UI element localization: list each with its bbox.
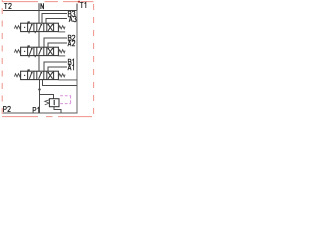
arrows in cells	[29, 24, 32, 31]
valve body	[21, 23, 59, 31]
border corner dot top-right	[78, 1, 80, 3]
wire: riser valve1->valve2	[38, 32, 40, 48]
arrows in cells	[29, 72, 32, 79]
label P1	[33, 107, 36, 113]
wire: A2 line	[48, 43, 67, 48]
port tick T1	[76, 4, 78, 11]
underline right	[58, 55, 65, 57]
top tick	[28, 45, 30, 47]
manifold top line (T rail)	[3, 10, 78, 12]
pilot line dashed (magenta) top	[60, 95, 71, 97]
valve V1 (bottom, ports A1/B1)	[14, 69, 77, 80]
relief valve RV	[45, 99, 59, 107]
underline right	[58, 31, 65, 33]
label A1	[68, 65, 71, 71]
wire: A3 line	[46, 19, 67, 24]
spring left	[14, 50, 21, 53]
wire: B2 line	[44, 38, 67, 48]
label T2	[4, 3, 7, 9]
valve body	[21, 47, 59, 55]
arrows in cells	[29, 48, 32, 55]
flow arrow on P line	[38, 89, 41, 92]
spring right	[59, 74, 66, 77]
spring	[45, 100, 50, 105]
pilot line dashed (magenta) bottom	[60, 103, 71, 105]
label N	[41, 3, 44, 9]
wire: B3 line	[42, 14, 67, 24]
wire: riser valve2->valve3	[38, 56, 40, 72]
label A2	[68, 41, 71, 47]
dividers	[27, 23, 29, 31]
label P2	[4, 106, 7, 112]
bottom ticks	[28, 32, 30, 34]
wire: relief branch	[40, 95, 54, 99]
enclosure dashed red border left	[1, 0, 3, 120]
top tick	[28, 69, 30, 71]
body box	[49, 99, 59, 107]
arrow inside	[53, 100, 55, 105]
valve V2 (middle, ports A2/B2)	[14, 45, 65, 57]
wire: A1 line	[48, 67, 67, 72]
pilot line dashed (magenta) right	[70, 96, 72, 104]
valve body	[21, 71, 59, 79]
manifold right edge	[76, 10, 78, 114]
enclosure dashed red border right	[93, 0, 95, 120]
port tick N	[38, 3, 40, 10]
spring right	[59, 50, 66, 53]
wire: B1 line	[44, 62, 67, 72]
manifold bottom line	[3, 112, 78, 114]
wire: P line below valve3	[39, 80, 41, 114]
wire: relief outlet	[54, 107, 61, 114]
wire: T out below valve3	[42, 80, 77, 86]
spring left	[14, 26, 21, 29]
enclosure dashed red border top	[2, 1, 94, 3]
valve V3 (top, ports A3/B3)	[14, 21, 65, 33]
label B2	[68, 35, 71, 41]
dividers	[27, 71, 29, 79]
underline extends to edge	[58, 79, 77, 81]
top tick	[28, 21, 30, 23]
spring left	[14, 74, 21, 77]
enclosure dashed red border bottom	[2, 116, 92, 118]
label B3	[68, 11, 71, 17]
wire: T riser valve1	[38, 11, 40, 24]
bottom ticks	[28, 56, 30, 58]
label T1	[80, 2, 83, 8]
label A3	[69, 16, 72, 22]
label B1	[68, 59, 71, 65]
spring right	[59, 26, 66, 29]
dividers	[27, 47, 29, 55]
